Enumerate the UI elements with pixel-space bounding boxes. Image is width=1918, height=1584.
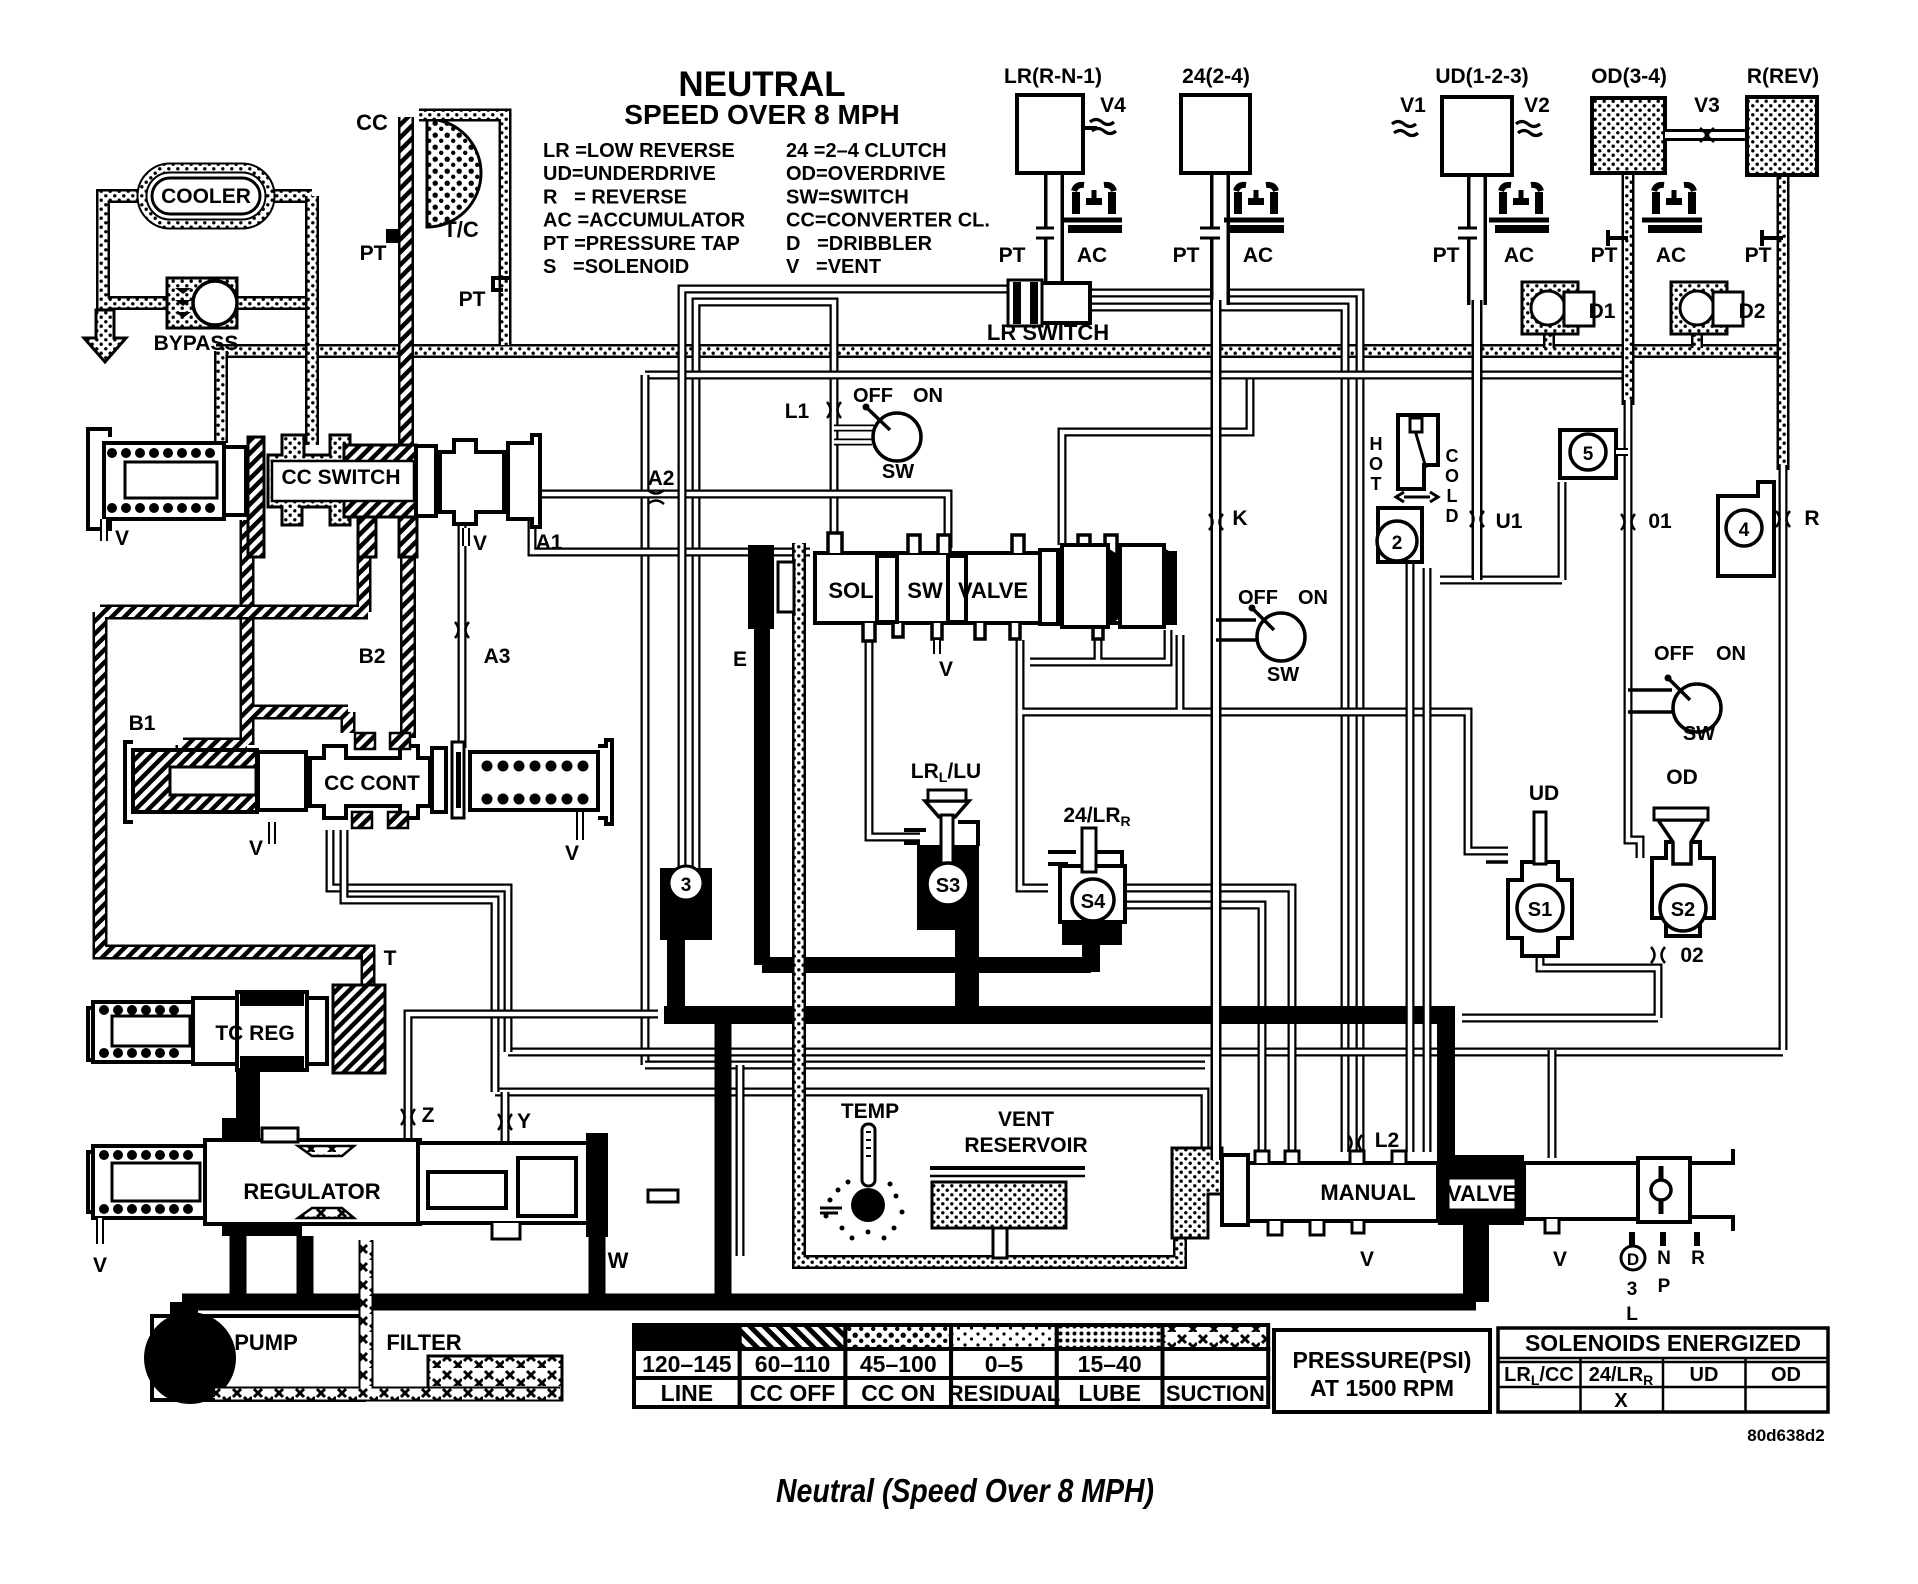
reservoir tank — [930, 1168, 1085, 1258]
svg-text:OD=OVERDRIVE: OD=OVERDRIVE — [786, 163, 945, 185]
svg-text:OFF: OFF — [1238, 587, 1278, 609]
svg-text:SW: SW — [1267, 664, 1299, 686]
svg-text:ON: ON — [1298, 587, 1328, 609]
svg-text:B1: B1 — [129, 712, 156, 735]
vent reservoir inlet block (stippled) — [1172, 1148, 1222, 1238]
svg-text:2: 2 — [1392, 533, 1403, 554]
svg-text:PT =PRESSURE TAP: PT =PRESSURE TAP — [543, 233, 740, 255]
svg-text:REGULATOR: REGULATOR — [243, 1179, 380, 1204]
svg-text:LUBE: LUBE — [1078, 1380, 1141, 1406]
svg-text:PT: PT — [459, 288, 486, 311]
svg-text:V2: V2 — [1524, 94, 1550, 117]
svg-text:SUCTION: SUCTION — [1166, 1381, 1265, 1406]
pinch marks on labeled pipes — [401, 402, 1790, 1151]
vent V2 — [1516, 122, 1542, 136]
main line from pump (black) — [182, 1294, 1476, 1311]
reservoir enclosure left wall — [736, 1065, 745, 1256]
svg-text:V: V — [93, 1254, 107, 1277]
svg-text:SW=SWITCH: SW=SWITCH — [786, 186, 909, 208]
dribbler D2 — [1671, 282, 1743, 334]
svg-text:P: P — [1658, 1276, 1671, 1297]
svg-text:CC OFF: CC OFF — [750, 1380, 836, 1406]
wire A2 — [462, 494, 948, 548]
svg-text:U1: U1 — [1496, 510, 1523, 533]
wire T — [361, 952, 376, 988]
reservoir top line — [645, 1061, 1205, 1070]
wire x1424 drop — [1406, 562, 1415, 1152]
svg-text:L2: L2 — [1375, 1129, 1400, 1152]
solenoid S2 — [1652, 808, 1714, 936]
svg-text:V: V — [473, 532, 487, 555]
wire cc cont bottom drop b — [344, 830, 495, 1092]
vent stub CC switch left — [100, 519, 108, 541]
clutch LR(R-N-1) box — [1017, 95, 1083, 173]
T/C shell pipe (stippled) — [419, 115, 505, 345]
svg-text:24 =2–4 CLUTCH: 24 =2–4 CLUTCH — [786, 140, 947, 162]
svg-text:PT: PT — [1745, 244, 1772, 267]
valve SOL SW VALVE — [815, 533, 1175, 641]
svg-text:VENT: VENT — [998, 1108, 1054, 1131]
thermometer — [820, 1124, 905, 1241]
black drops from regulator — [230, 1236, 247, 1300]
vent stub cc cont right — [576, 812, 584, 840]
svg-text:TC REG: TC REG — [215, 1022, 294, 1045]
wire U1 junction — [1440, 482, 1562, 580]
svg-text:5: 5 — [1583, 444, 1594, 465]
svg-text:S4: S4 — [1081, 891, 1106, 913]
solenoid bleed 3 — [660, 866, 712, 940]
LR SWITCH valve — [1008, 280, 1090, 326]
svg-text:SOL: SOL — [828, 578, 873, 603]
wire SW1 connect — [834, 428, 874, 442]
valve CC SWITCH — [88, 429, 540, 557]
svg-text:L: L — [1626, 1304, 1638, 1325]
svg-text:D: D — [1627, 1250, 1639, 1269]
svg-text:60–110: 60–110 — [755, 1351, 830, 1377]
wire E (black) — [762, 620, 1091, 965]
PT stub OD — [1608, 230, 1628, 246]
wire B2 / CC down (hatched) — [400, 557, 416, 738]
return line y1050 — [508, 1048, 1783, 1057]
svg-text:L: L — [1447, 486, 1458, 506]
suction pipe (crosshatch) — [215, 1240, 560, 1394]
svg-text:120–145: 120–145 — [642, 1351, 732, 1377]
sol valve feedback loop inner — [1030, 630, 1168, 662]
wire A1 — [532, 505, 810, 552]
black inlet block E — [748, 545, 794, 629]
wire LR PT branch — [1036, 227, 1054, 240]
svg-text:02: 02 — [1680, 944, 1703, 967]
svg-text:CC=CONVERTER CL.: CC=CONVERTER CL. — [786, 210, 990, 232]
svg-text:Y: Y — [517, 1110, 531, 1133]
svg-text:PT: PT — [1433, 244, 1460, 267]
relief valve right of regulator — [418, 1133, 678, 1239]
svg-text:VALVE: VALVE — [958, 578, 1028, 603]
wire from 3 to main black trunk — [664, 935, 1446, 1165]
svg-text:AC =ACCUMULATOR: AC =ACCUMULATOR — [543, 210, 746, 232]
svg-text:B2: B2 — [359, 645, 386, 668]
svg-text:S1: S1 — [1528, 899, 1552, 921]
svg-text:01: 01 — [1648, 510, 1672, 533]
wire A3 — [458, 494, 467, 748]
black below manual valve — [1463, 1225, 1489, 1302]
wire OD clutch line lower (01) — [1628, 400, 1640, 858]
svg-text:D1: D1 — [1589, 300, 1616, 323]
vent stub cc cont left — [268, 822, 276, 844]
selector DNR — [1621, 1232, 1697, 1270]
accumulator AC2 — [1224, 185, 1284, 229]
svg-text:V: V — [1553, 1248, 1567, 1271]
svg-text:V3: V3 — [1694, 94, 1720, 117]
wire 24 clutch feed upper — [1210, 163, 1230, 305]
svg-text:AT 1500 RPM: AT 1500 RPM — [1310, 1375, 1454, 1401]
vent V1 — [1392, 122, 1418, 136]
switch SW3 — [1628, 675, 1721, 733]
svg-text:R = REVERSE: R = REVERSE — [543, 186, 687, 208]
wire LR switch right lower — [1090, 307, 1345, 1152]
svg-text:PT: PT — [999, 244, 1026, 267]
wire cc cont bottom drop a — [330, 830, 508, 1052]
svg-text:V: V — [565, 842, 579, 865]
svg-text:LR =LOW REVERSE: LR =LOW REVERSE — [543, 140, 735, 162]
svg-text:A1: A1 — [536, 531, 563, 554]
vent V3 pinch — [1700, 128, 1714, 142]
clutch OD(3-4) box (applied, stippled) — [1592, 98, 1665, 173]
svg-text:V1: V1 — [1400, 94, 1426, 117]
valve TC REG — [88, 985, 385, 1073]
valve MANUAL VALVE — [1222, 1149, 1733, 1235]
svg-text:0–5: 0–5 — [985, 1351, 1024, 1377]
pressure psi box — [1274, 1330, 1490, 1412]
svg-text:VALVE: VALVE — [1447, 1181, 1517, 1206]
svg-text:N: N — [1657, 1248, 1671, 1269]
switch SW1 — [863, 404, 922, 462]
svg-text:SPEED OVER 8 MPH: SPEED OVER 8 MPH — [624, 99, 899, 130]
svg-text:T: T — [384, 947, 397, 970]
black drop to sump x723 — [715, 1015, 732, 1302]
bypass valve — [167, 278, 237, 328]
wire W (black) — [589, 1237, 606, 1300]
wire UD clutch feed upper — [1467, 170, 1487, 305]
svg-text:CC ON: CC ON — [861, 1380, 935, 1406]
svg-text:V: V — [1360, 1248, 1374, 1271]
svg-text:PT: PT — [360, 242, 387, 265]
svg-text:D =DRIBBLER: D =DRIBBLER — [786, 233, 933, 255]
svg-text:PRESSURE(PSI): PRESSURE(PSI) — [1293, 1347, 1472, 1373]
svg-text:PT: PT — [1591, 244, 1618, 267]
svg-text:80d638d2: 80d638d2 — [1747, 1426, 1825, 1445]
sol valve feedback loop outer — [1020, 635, 1508, 888]
wire LR switch line A — [682, 289, 1008, 868]
svg-text:COOLER: COOLER — [161, 185, 251, 208]
vent stub CC switch mid — [462, 528, 470, 546]
accumulator AC1 — [1062, 185, 1122, 229]
pressure legend table — [634, 1325, 1268, 1407]
svg-text:MANUAL: MANUAL — [1320, 1180, 1415, 1205]
svg-text:CC SWITCH: CC SWITCH — [282, 466, 401, 489]
svg-text:RESIDUAL: RESIDUAL — [948, 1381, 1060, 1406]
svg-text:OFF: OFF — [853, 385, 893, 407]
svg-text:Z: Z — [422, 1104, 435, 1127]
svg-text:LR SWITCH: LR SWITCH — [987, 320, 1109, 345]
black link S3 — [955, 925, 979, 1015]
svg-text:24(2-4): 24(2-4) — [1182, 65, 1250, 88]
cooler loop pipes (stippled) — [103, 196, 312, 310]
svg-text:FILTER: FILTER — [386, 1330, 461, 1355]
svg-text:UD: UD — [1690, 1364, 1719, 1386]
svg-text:X: X — [1614, 1390, 1628, 1412]
CC hatched feed — [398, 117, 414, 455]
svg-text:O: O — [1445, 466, 1459, 486]
wire R drop to manual valve — [1548, 1050, 1557, 1158]
svg-text:D: D — [1446, 506, 1459, 526]
wire 24 PT branch — [1200, 227, 1220, 240]
svg-text:R: R — [1691, 1248, 1705, 1269]
svg-text:A2: A2 — [648, 467, 675, 490]
wire S3 top feed — [869, 640, 920, 837]
svg-text:S3: S3 — [936, 875, 960, 897]
vent V4 — [1083, 126, 1097, 130]
wire x645 drop — [641, 375, 650, 1065]
bleed 5 — [1560, 430, 1616, 478]
svg-text:OD(3-4): OD(3-4) — [1591, 65, 1667, 88]
svg-text:T/C: T/C — [443, 217, 479, 242]
svg-text:15–40: 15–40 — [1078, 1351, 1142, 1377]
svg-text:S =SOLENOID: S =SOLENOID — [543, 256, 689, 278]
wire 5 to OD line — [1616, 448, 1628, 456]
wire S4 right upper — [1125, 888, 1292, 1151]
wire Y — [501, 1092, 510, 1143]
svg-text:CC CONT: CC CONT — [324, 772, 420, 795]
svg-text:OFF: OFF — [1654, 643, 1694, 665]
wire LR switch line B to L1 — [696, 302, 834, 868]
svg-text:SW: SW — [882, 461, 914, 483]
wire S1 S2 bottom (02) — [1462, 931, 1658, 1018]
svg-text:R: R — [1804, 507, 1819, 530]
D1 stub to main line — [1543, 330, 1555, 348]
accumulator AC3 — [1489, 185, 1549, 229]
clutch 24(2-4) box — [1181, 95, 1250, 173]
valve CC CONT — [125, 733, 612, 828]
solenoid S4 — [1048, 828, 1125, 945]
filter box (crosshatch) — [428, 1356, 562, 1400]
valve REGULATOR — [88, 1118, 420, 1236]
svg-text:O: O — [1369, 454, 1383, 474]
solenoid S1 — [1486, 812, 1572, 956]
cooler — [142, 168, 270, 224]
svg-text:CC: CC — [356, 110, 388, 135]
svg-text:SOLENOIDS ENERGIZED: SOLENOIDS ENERGIZED — [1525, 1330, 1801, 1356]
PT stub tc1 — [386, 229, 399, 243]
wire UD clutch line — [1472, 300, 1483, 580]
svg-text:R(REV): R(REV) — [1747, 65, 1819, 88]
dribbler D1 — [1522, 282, 1594, 334]
svg-text:LINE: LINE — [661, 1380, 713, 1406]
svg-text:L1: L1 — [785, 400, 810, 423]
wire R clutch line lower — [1779, 465, 1788, 1050]
svg-text:UD: UD — [1529, 782, 1559, 805]
svg-text:OD: OD — [1771, 1364, 1801, 1386]
svg-text:D2: D2 — [1739, 300, 1766, 323]
cooler feed down to CC switch (stippled) — [221, 196, 312, 445]
svg-text:AC: AC — [1504, 244, 1534, 267]
wire Z (02 return) — [408, 1014, 658, 1143]
svg-text:A3: A3 — [484, 645, 511, 668]
svg-text:3: 3 — [681, 875, 692, 896]
thermal valve HOT/COLD — [1377, 415, 1438, 562]
svg-text:SW: SW — [907, 578, 943, 603]
svg-text:LRL/CC: LRL/CC — [1504, 1364, 1574, 1388]
accumulator AC4 — [1642, 185, 1702, 229]
solenoid S3 — [904, 790, 979, 930]
svg-text:W: W — [608, 1248, 629, 1273]
D2 stub to main line — [1691, 330, 1703, 348]
svg-text:OD: OD — [1666, 766, 1698, 789]
svg-text:AC: AC — [1243, 244, 1273, 267]
svg-text:UD(1-2-3): UD(1-2-3) — [1435, 65, 1528, 88]
PT stub R — [1762, 230, 1783, 246]
svg-text:E: E — [733, 648, 747, 671]
svg-text:BYPASS: BYPASS — [154, 332, 239, 355]
svg-text:45–100: 45–100 — [860, 1351, 937, 1377]
svg-text:AC: AC — [1656, 244, 1686, 267]
solenoids energized table — [1498, 1328, 1828, 1412]
wire LR clutch feed — [1044, 163, 1064, 283]
wire S4 right lower — [1125, 905, 1262, 1151]
svg-text:TEMP: TEMP — [841, 1100, 899, 1123]
svg-text:Neutral (Speed Over 8 MPH): Neutral (Speed Over 8 MPH) — [776, 1472, 1154, 1509]
left hatched loop — [100, 556, 368, 985]
drain arrow — [84, 310, 126, 362]
clutch R(REV) box (stippled) — [1747, 97, 1817, 175]
wire y375 to valve port — [1062, 375, 1250, 545]
wire 24 clutch line (K) — [1211, 300, 1222, 1160]
svg-text:4: 4 — [1739, 520, 1750, 541]
svg-text:ON: ON — [1716, 643, 1746, 665]
svg-text:ON: ON — [913, 385, 943, 407]
svg-text:AC: AC — [1077, 244, 1107, 267]
main converter-on stippled line — [216, 344, 1786, 358]
svg-text:PUMP: PUMP — [234, 1330, 298, 1355]
svg-text:V: V — [939, 658, 953, 681]
black link S4 — [1082, 940, 1100, 972]
svg-text:3: 3 — [1627, 1279, 1638, 1300]
torque converter T/C dome — [427, 119, 481, 227]
svg-text:K: K — [1232, 507, 1247, 530]
svg-text:SW: SW — [1683, 723, 1715, 745]
wire from CC switch down (hatched) — [183, 520, 348, 755]
svg-text:LR(R-N-1): LR(R-N-1) — [1004, 65, 1102, 88]
svg-text:S2: S2 — [1671, 899, 1695, 921]
clutch UD(1-2-3) box — [1442, 97, 1512, 175]
svg-text:H: H — [1370, 434, 1383, 454]
PT stub tc2 — [493, 278, 509, 290]
vent stub sol valve — [933, 640, 941, 654]
wire R clutch line upper (stippled) — [1777, 160, 1790, 470]
svg-text:V =VENT: V =VENT — [786, 256, 881, 278]
svg-text:V: V — [249, 837, 263, 860]
wire OD clutch line upper (stippled) — [1622, 173, 1635, 405]
wire UD PT branch — [1458, 227, 1477, 240]
return line y1092 — [495, 1092, 1205, 1148]
svg-text:UD=UNDERDRIVE: UD=UNDERDRIVE — [543, 163, 716, 185]
vent stub regulator — [96, 1218, 104, 1244]
svg-text:PT: PT — [1173, 244, 1200, 267]
black link TC REG to regulator — [236, 1070, 260, 1143]
pump assembly — [144, 1302, 364, 1404]
svg-text:V: V — [115, 527, 129, 550]
wire LR switch right upper — [1090, 293, 1360, 1152]
bleed 4 — [1718, 482, 1774, 576]
switch SW2 — [1216, 605, 1305, 662]
vent V3 pipe — [1665, 129, 1747, 141]
wire x1427 drop — [1423, 568, 1432, 1152]
svg-text:C: C — [1446, 446, 1459, 466]
svg-text:T: T — [1371, 474, 1382, 494]
svg-text:V4: V4 — [1100, 94, 1126, 117]
svg-text:RESERVOIR: RESERVOIR — [964, 1134, 1087, 1157]
stippled solenoid feed column — [799, 543, 1180, 1262]
long horizontal line y375 — [645, 371, 1630, 380]
